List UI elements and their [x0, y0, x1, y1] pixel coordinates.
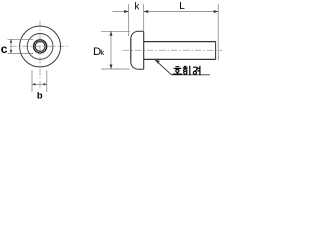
- svg-text:k: k: [135, 1, 140, 12]
- svg-text:L: L: [179, 1, 185, 12]
- svg-text:c: c: [1, 42, 8, 56]
- svg-text:k: k: [100, 48, 104, 57]
- svg-text:b: b: [37, 90, 43, 99]
